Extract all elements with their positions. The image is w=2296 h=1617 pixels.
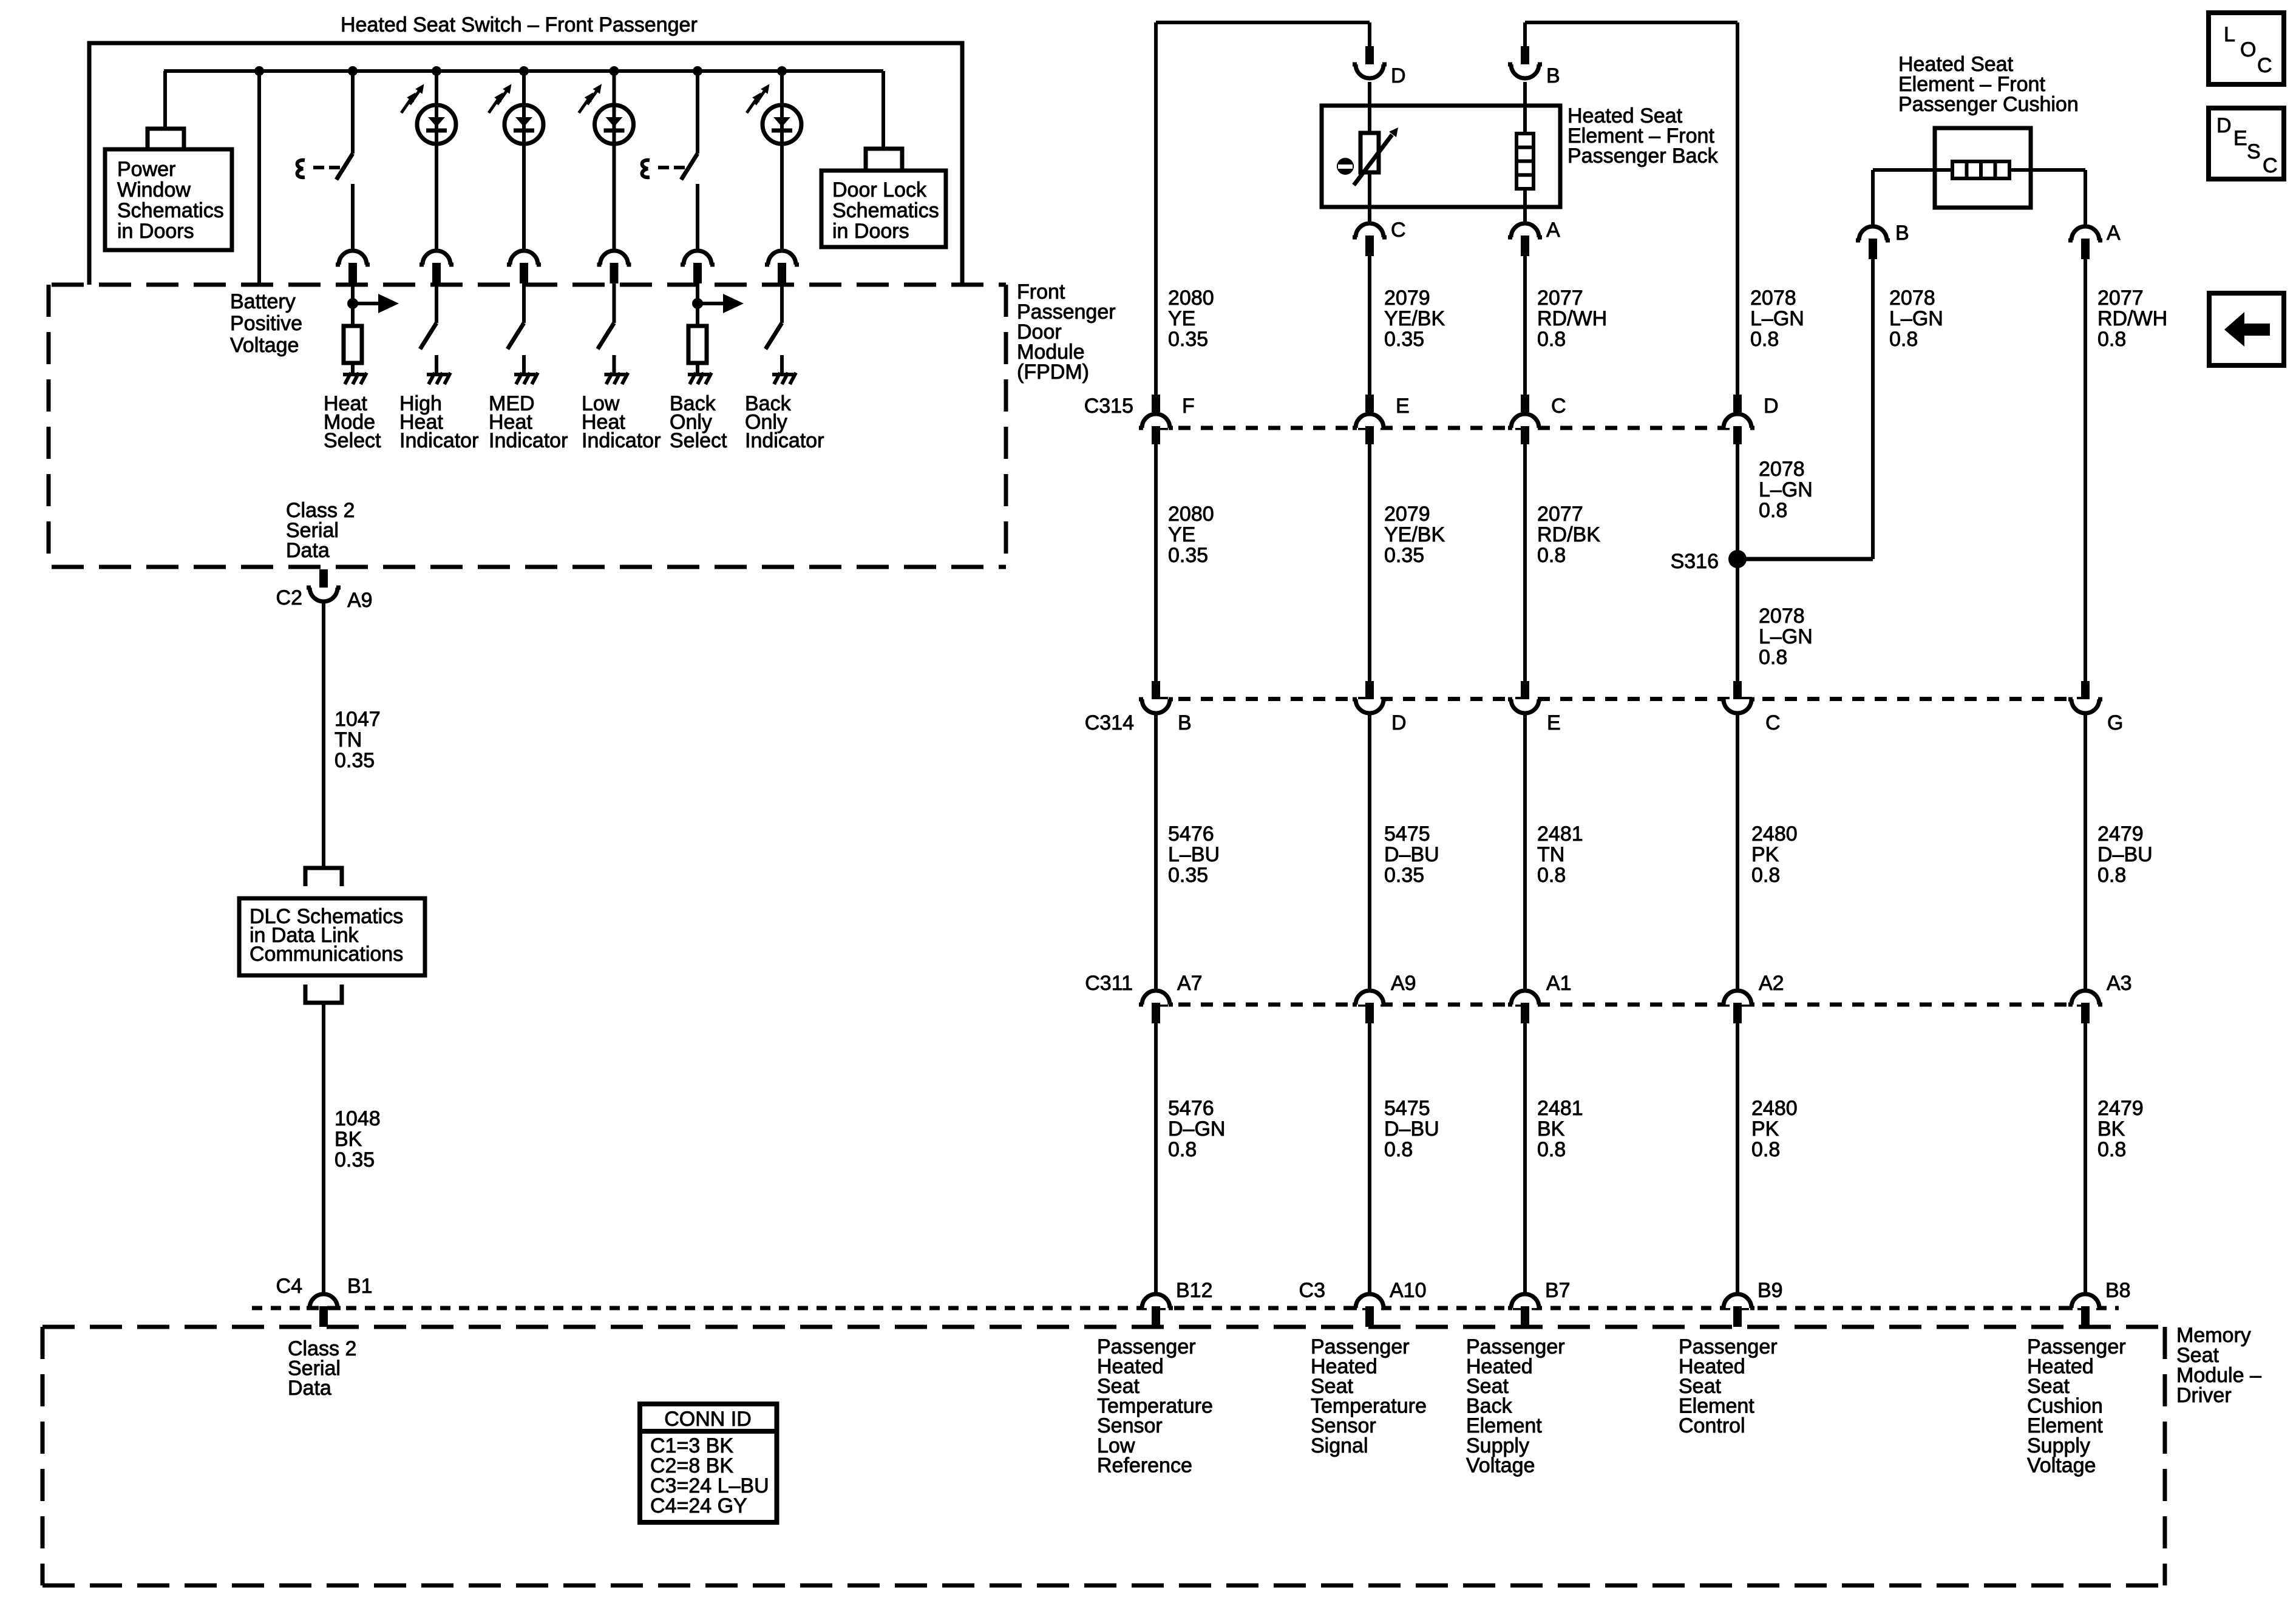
svg-text:Window: Window xyxy=(117,178,191,202)
svg-text:Data: Data xyxy=(288,1377,331,1400)
svg-text:A10: A10 xyxy=(1390,1279,1427,1302)
svg-text:C314: C314 xyxy=(1085,711,1134,734)
svg-text:D–BU: D–BU xyxy=(2097,843,2153,866)
svg-text:D–BU: D–BU xyxy=(1384,843,1439,866)
svg-text:0.8: 0.8 xyxy=(1759,499,1787,522)
svg-text:RD/WH: RD/WH xyxy=(1537,307,1607,330)
svg-text:RD/BK: RD/BK xyxy=(1537,523,1600,546)
svg-text:D: D xyxy=(1764,395,1779,418)
svg-text:L–GN: L–GN xyxy=(1759,478,1813,501)
svg-text:TN: TN xyxy=(335,728,362,751)
svg-text:CONN ID: CONN ID xyxy=(664,1408,752,1431)
svg-text:A: A xyxy=(1546,219,1560,242)
svg-text:A: A xyxy=(2107,222,2121,245)
svg-text:C: C xyxy=(2263,154,2278,177)
svg-text:C: C xyxy=(1391,219,1406,242)
svg-text:2078: 2078 xyxy=(1750,286,1796,310)
svg-text:2078: 2078 xyxy=(1759,605,1805,628)
svg-text:D: D xyxy=(2216,114,2232,137)
svg-text:Voltage: Voltage xyxy=(2027,1454,2096,1477)
svg-text:in Doors: in Doors xyxy=(832,220,909,243)
svg-text:S: S xyxy=(2247,140,2261,163)
svg-text:A2: A2 xyxy=(1759,972,1784,995)
svg-text:(FPDM): (FPDM) xyxy=(1017,361,1089,384)
svg-text:B: B xyxy=(1178,711,1192,734)
svg-text:C: C xyxy=(2257,54,2272,77)
svg-text:Schematics: Schematics xyxy=(117,199,224,222)
svg-text:2480: 2480 xyxy=(1751,822,1798,846)
svg-text:5476: 5476 xyxy=(1168,822,1214,846)
svg-text:B7: B7 xyxy=(1545,1279,1571,1302)
svg-text:Power: Power xyxy=(117,158,175,181)
svg-text:D: D xyxy=(1391,711,1407,734)
svg-text:2079: 2079 xyxy=(1384,503,1430,526)
svg-text:G: G xyxy=(2107,711,2123,734)
svg-text:A9: A9 xyxy=(1391,972,1416,995)
svg-text:0.35: 0.35 xyxy=(1384,328,1424,351)
svg-text:S316: S316 xyxy=(1671,550,1719,573)
svg-text:B8: B8 xyxy=(2105,1279,2131,1302)
svg-text:RD/WH: RD/WH xyxy=(2097,307,2167,330)
svg-text:Heated Seat Switch – Front Pas: Heated Seat Switch – Front Passenger xyxy=(341,13,698,36)
svg-text:in Doors: in Doors xyxy=(117,220,194,243)
svg-text:YE/BK: YE/BK xyxy=(1384,523,1445,546)
svg-text:Select: Select xyxy=(670,429,727,452)
svg-text:0.8: 0.8 xyxy=(1751,1138,1780,1161)
svg-text:Voltage: Voltage xyxy=(230,334,299,357)
svg-text:Schematics: Schematics xyxy=(832,199,939,222)
svg-text:D–BU: D–BU xyxy=(1384,1117,1439,1141)
svg-text:B: B xyxy=(1895,222,1909,245)
svg-text:B9: B9 xyxy=(1758,1279,1783,1302)
svg-text:2078: 2078 xyxy=(1759,458,1805,481)
svg-text:2480: 2480 xyxy=(1751,1097,1798,1120)
svg-text:0.8: 0.8 xyxy=(1384,1138,1413,1161)
svg-text:C: C xyxy=(1551,395,1566,418)
svg-text:5475: 5475 xyxy=(1384,1097,1430,1120)
svg-text:2479: 2479 xyxy=(2097,822,2144,846)
svg-text:2078: 2078 xyxy=(1889,286,1935,310)
svg-text:C315: C315 xyxy=(1084,395,1133,418)
svg-text:A1: A1 xyxy=(1546,972,1572,995)
svg-text:A3: A3 xyxy=(2107,972,2132,995)
svg-text:0.35: 0.35 xyxy=(1168,328,1208,351)
svg-text:L–GN: L–GN xyxy=(1750,307,1804,330)
svg-text:2481: 2481 xyxy=(1537,822,1583,846)
svg-text:0.35: 0.35 xyxy=(1384,544,1424,567)
svg-text:2077: 2077 xyxy=(1537,286,1583,310)
svg-text:C3: C3 xyxy=(1299,1279,1325,1302)
svg-text:B1: B1 xyxy=(347,1275,373,1298)
svg-text:0.8: 0.8 xyxy=(1537,1138,1566,1161)
svg-text:Passenger Cushion: Passenger Cushion xyxy=(1898,93,2079,116)
svg-text:PK: PK xyxy=(1751,1117,1779,1141)
svg-text:Voltage: Voltage xyxy=(1466,1454,1535,1477)
svg-text:2077: 2077 xyxy=(2097,286,2144,310)
svg-text:B12: B12 xyxy=(1176,1279,1213,1302)
svg-text:L–GN: L–GN xyxy=(1889,307,1943,330)
svg-text:5476: 5476 xyxy=(1168,1097,1214,1120)
svg-text:A9: A9 xyxy=(347,589,373,612)
svg-text:Indicator: Indicator xyxy=(745,429,824,452)
svg-text:5475: 5475 xyxy=(1384,822,1430,846)
svg-text:0.35: 0.35 xyxy=(335,1148,375,1171)
svg-text:YE: YE xyxy=(1168,523,1195,546)
svg-text:L: L xyxy=(2224,23,2235,46)
svg-text:0.8: 0.8 xyxy=(1168,1138,1197,1161)
svg-text:Indicator: Indicator xyxy=(582,429,661,452)
svg-text:0.8: 0.8 xyxy=(1537,328,1566,351)
svg-text:0.8: 0.8 xyxy=(1889,328,1918,351)
svg-text:Driver: Driver xyxy=(2176,1384,2232,1407)
svg-text:0.35: 0.35 xyxy=(1168,544,1208,567)
svg-text:Signal: Signal xyxy=(1311,1434,1368,1457)
svg-text:Indicator: Indicator xyxy=(489,429,568,452)
svg-text:0.8: 0.8 xyxy=(2097,328,2126,351)
svg-text:E: E xyxy=(2233,127,2247,150)
svg-text:BK: BK xyxy=(335,1128,362,1151)
svg-text:BK: BK xyxy=(1537,1117,1565,1141)
svg-text:0.8: 0.8 xyxy=(1759,646,1787,669)
svg-text:Battery: Battery xyxy=(230,290,296,313)
svg-text:PK: PK xyxy=(1751,843,1779,866)
svg-text:0.35: 0.35 xyxy=(1384,864,1424,887)
svg-text:2080: 2080 xyxy=(1168,286,1214,310)
svg-text:TN: TN xyxy=(1537,843,1564,866)
svg-text:YE/BK: YE/BK xyxy=(1384,307,1445,330)
svg-text:2080: 2080 xyxy=(1168,503,1214,526)
svg-text:Control: Control xyxy=(1679,1414,1745,1437)
svg-text:BK: BK xyxy=(2097,1117,2125,1141)
svg-text:Door Lock: Door Lock xyxy=(832,178,927,202)
svg-text:0.8: 0.8 xyxy=(1537,864,1566,887)
svg-text:L–BU: L–BU xyxy=(1168,843,1220,866)
svg-text:0.8: 0.8 xyxy=(1537,544,1566,567)
svg-text:F: F xyxy=(1182,395,1195,418)
svg-text:0.8: 0.8 xyxy=(1750,328,1779,351)
svg-text:C4=24 GY: C4=24 GY xyxy=(650,1494,747,1517)
svg-text:B: B xyxy=(1546,64,1560,87)
svg-text:0.8: 0.8 xyxy=(1751,864,1780,887)
svg-text:0.35: 0.35 xyxy=(1168,864,1208,887)
svg-text:Passenger Back: Passenger Back xyxy=(1567,144,1719,168)
svg-text:O: O xyxy=(2240,38,2256,61)
svg-text:E: E xyxy=(1396,395,1410,418)
svg-text:Communications: Communications xyxy=(250,943,403,966)
svg-text:2479: 2479 xyxy=(2097,1097,2144,1120)
svg-text:C4: C4 xyxy=(276,1275,302,1298)
svg-text:C: C xyxy=(1765,711,1781,734)
svg-text:2481: 2481 xyxy=(1537,1097,1583,1120)
svg-text:L–GN: L–GN xyxy=(1759,625,1813,648)
svg-text:Select: Select xyxy=(324,429,381,452)
svg-text:C311: C311 xyxy=(1085,972,1133,995)
svg-text:Positive: Positive xyxy=(230,312,302,335)
svg-text:YE: YE xyxy=(1168,307,1195,330)
svg-text:1047: 1047 xyxy=(335,708,381,731)
svg-text:Reference: Reference xyxy=(1097,1454,1192,1477)
svg-text:0.8: 0.8 xyxy=(2097,864,2126,887)
svg-text:Indicator: Indicator xyxy=(399,429,478,452)
svg-text:E: E xyxy=(1547,711,1561,734)
svg-text:C2: C2 xyxy=(276,586,302,609)
svg-text:A7: A7 xyxy=(1177,972,1203,995)
svg-text:0.8: 0.8 xyxy=(2097,1138,2126,1161)
svg-text:1048: 1048 xyxy=(335,1107,381,1130)
svg-text:2077: 2077 xyxy=(1537,503,1583,526)
svg-text:D–GN: D–GN xyxy=(1168,1117,1225,1141)
svg-text:0.35: 0.35 xyxy=(335,749,375,772)
svg-text:Data: Data xyxy=(286,539,330,562)
svg-text:D: D xyxy=(1391,64,1406,87)
svg-text:2079: 2079 xyxy=(1384,286,1430,310)
